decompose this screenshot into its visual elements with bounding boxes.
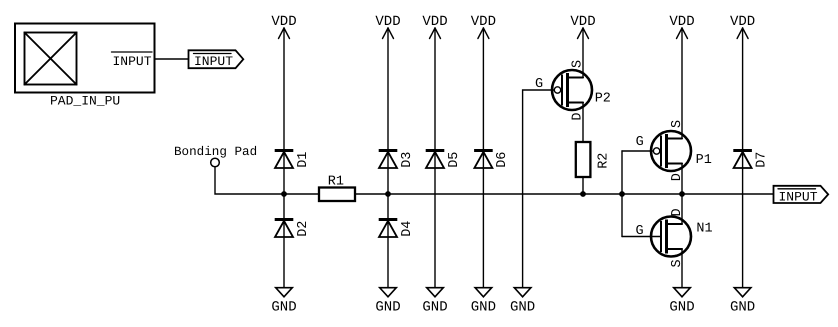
- resistor R2: [576, 142, 591, 177]
- VDD rail symbol (P2 column): [570, 14, 595, 39]
- ground symbol (D5 column): [422, 288, 447, 316]
- ground symbol (P2 gate column): [510, 288, 535, 316]
- wire P2 gate to GND column: [523, 90, 555, 288]
- wire P2 drain to R2: [582, 103, 584, 143]
- pad symbol X-box: [25, 33, 77, 85]
- wire R1 to output node (main horizontal net): [355, 193, 774, 195]
- block U_PAD outline: [15, 24, 155, 93]
- junction node (D3 column): [385, 191, 391, 197]
- wire block pin to flag: [155, 58, 189, 60]
- svg-text:D4: D4: [400, 221, 415, 237]
- svg-text:D7: D7: [754, 152, 769, 168]
- svg-text:D2: D2: [296, 221, 311, 237]
- svg-text:GND: GND: [510, 299, 535, 315]
- diode D3: [379, 151, 415, 169]
- junction node A (pad/D1/R1): [281, 191, 287, 197]
- wire P1 drain to output node: [681, 164, 683, 195]
- svg-text:GND: GND: [669, 299, 694, 315]
- diode D2: [275, 220, 311, 238]
- wire N1 drain to output node: [681, 194, 683, 224]
- diode D1: [275, 151, 311, 169]
- svg-text:GND: GND: [471, 299, 496, 315]
- svg-text:INPUT: INPUT: [113, 54, 152, 69]
- svg-text:R1: R1: [328, 174, 344, 189]
- ground symbol (D2 column): [271, 288, 296, 316]
- svg-text:S: S: [571, 60, 586, 68]
- resistor R1: [319, 188, 355, 202]
- wire R2 to output node: [582, 177, 584, 194]
- net flag INPUT (right): [774, 186, 829, 205]
- wire to P1 gate: [622, 150, 653, 152]
- VDD rail symbol (D5 column): [422, 14, 447, 39]
- svg-text:D5: D5: [447, 152, 462, 168]
- diode D7: [733, 151, 769, 169]
- wire VDD to GND through D7 column: [742, 28, 744, 288]
- ground symbol (D4 column): [375, 288, 400, 316]
- diode D6: [474, 151, 510, 169]
- svg-text:Bonding Pad: Bonding Pad: [174, 145, 257, 159]
- VDD rail symbol (D1 column): [271, 14, 296, 39]
- svg-text:PAD_IN_PU: PAD_IN_PU: [50, 94, 120, 109]
- svg-text:R2: R2: [597, 153, 612, 169]
- wire VDD to P2 source: [582, 28, 584, 78]
- svg-text:GND: GND: [730, 299, 755, 315]
- transistor P1 (PMOS): [651, 131, 691, 171]
- wire node A to R1: [284, 193, 319, 195]
- junction node (gate branch): [619, 191, 625, 197]
- diode D4: [379, 220, 415, 238]
- transistor N1 (NMOS): [651, 217, 691, 257]
- wire VDD to GND through D5 column: [434, 28, 436, 288]
- wire VDD to P1 source: [681, 28, 683, 139]
- svg-text:P2: P2: [595, 92, 611, 107]
- wire bonding pad to node A: [215, 167, 284, 194]
- svg-text:GND: GND: [271, 299, 296, 315]
- svg-text:GND: GND: [422, 299, 447, 315]
- wire VDD to GND through D1/D2 column: [283, 28, 285, 288]
- svg-text:D3: D3: [400, 152, 415, 168]
- svg-text:G: G: [535, 77, 543, 92]
- wire VDD to GND through D6 column: [482, 28, 484, 288]
- VDD rail symbol (D6 column): [471, 14, 496, 39]
- junction node (R2 bottom): [580, 191, 586, 197]
- svg-text:INPUT: INPUT: [779, 190, 818, 205]
- svg-text:GND: GND: [375, 299, 400, 315]
- junction node (P1/N1 drains): [679, 191, 685, 197]
- svg-text:D6: D6: [495, 152, 510, 168]
- VDD rail symbol (D7 column): [730, 14, 755, 39]
- wire gate branch vertical: [621, 151, 623, 237]
- wire VDD to GND through D3/D4 column: [387, 28, 389, 288]
- svg-text:S: S: [670, 120, 685, 128]
- ground symbol (N1 column): [669, 288, 694, 316]
- svg-text:G: G: [636, 135, 644, 150]
- diode D5: [426, 151, 462, 169]
- pin label INPUT (inverted) inside block: [112, 52, 153, 69]
- transistor P2 (PMOS): [552, 70, 592, 110]
- svg-text:D1: D1: [296, 152, 311, 168]
- wire to N1 gate: [622, 236, 660, 238]
- ground symbol (D7 column): [730, 288, 755, 316]
- VDD rail symbol (D3 column): [375, 14, 400, 39]
- wire N1 source to GND: [681, 249, 683, 288]
- VDD rail symbol (P1 column): [669, 14, 694, 39]
- ground symbol (D6 column): [471, 288, 496, 316]
- bonding pad circle: [211, 158, 220, 167]
- svg-text:N1: N1: [696, 222, 712, 237]
- svg-text:P1: P1: [696, 153, 712, 168]
- svg-text:INPUT: INPUT: [194, 54, 233, 69]
- net flag INPUT (left): [189, 50, 244, 69]
- svg-text:G: G: [636, 224, 644, 239]
